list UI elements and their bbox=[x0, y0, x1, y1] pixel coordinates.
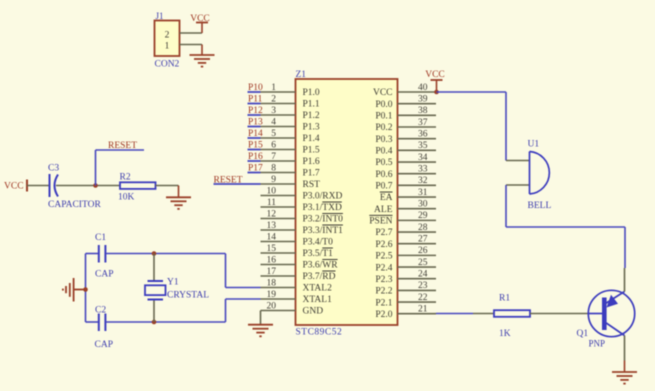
svg-text:XTAL2: XTAL2 bbox=[303, 284, 333, 294]
svg-text:RST: RST bbox=[303, 180, 321, 190]
svg-text:P0.6: P0.6 bbox=[375, 170, 392, 180]
svg-text:P1.1: P1.1 bbox=[303, 100, 320, 110]
svg-text:C3: C3 bbox=[48, 164, 59, 174]
svg-text:VCC: VCC bbox=[373, 88, 393, 98]
svg-text:2: 2 bbox=[165, 31, 170, 41]
svg-text:1: 1 bbox=[271, 83, 276, 93]
svg-text:STC89C52: STC89C52 bbox=[296, 328, 343, 338]
svg-text:26: 26 bbox=[418, 246, 428, 256]
svg-text:9: 9 bbox=[271, 175, 276, 185]
svg-text:35: 35 bbox=[418, 141, 428, 151]
svg-text:10: 10 bbox=[267, 186, 277, 196]
svg-text:P1.0: P1.0 bbox=[303, 88, 320, 98]
svg-text:24: 24 bbox=[418, 270, 428, 280]
svg-text:EA: EA bbox=[380, 193, 393, 203]
svg-text:31: 31 bbox=[418, 188, 428, 198]
svg-text:J1: J1 bbox=[156, 11, 164, 21]
svg-text:P2.4: P2.4 bbox=[375, 263, 392, 273]
svg-text:7: 7 bbox=[271, 152, 276, 162]
svg-text:3: 3 bbox=[271, 106, 276, 116]
svg-text:P0.4: P0.4 bbox=[375, 147, 392, 157]
svg-text:P3.2/INT0: P3.2/INT0 bbox=[303, 215, 344, 225]
svg-text:GND: GND bbox=[303, 307, 324, 317]
svg-text:11: 11 bbox=[267, 198, 276, 208]
svg-text:6: 6 bbox=[271, 140, 276, 150]
svg-text:1: 1 bbox=[165, 42, 170, 52]
svg-text:P3.1/TXD: P3.1/TXD bbox=[303, 203, 342, 213]
svg-text:PNP: PNP bbox=[589, 339, 606, 349]
svg-text:12: 12 bbox=[267, 209, 277, 219]
svg-text:15: 15 bbox=[267, 244, 277, 254]
svg-text:P0.0: P0.0 bbox=[375, 100, 392, 110]
svg-text:27: 27 bbox=[418, 235, 428, 245]
svg-text:2: 2 bbox=[271, 94, 276, 104]
svg-text:4: 4 bbox=[271, 117, 276, 127]
svg-text:ALE: ALE bbox=[374, 205, 393, 215]
svg-text:30: 30 bbox=[418, 200, 428, 210]
svg-text:20: 20 bbox=[267, 301, 277, 311]
svg-text:P0.7: P0.7 bbox=[375, 182, 392, 192]
svg-text:CAP: CAP bbox=[95, 270, 113, 280]
svg-text:8: 8 bbox=[271, 163, 276, 173]
svg-text:C1: C1 bbox=[95, 233, 106, 243]
svg-text:10K: 10K bbox=[118, 193, 135, 203]
svg-text:P1.4: P1.4 bbox=[303, 134, 320, 144]
svg-text:37: 37 bbox=[418, 118, 428, 128]
svg-text:P3.7/RD: P3.7/RD bbox=[303, 272, 336, 282]
svg-text:CAP: CAP bbox=[95, 340, 113, 350]
svg-text:RESET: RESET bbox=[108, 141, 137, 151]
svg-text:P1.5: P1.5 bbox=[303, 146, 320, 156]
svg-text:21: 21 bbox=[418, 305, 428, 315]
svg-text:1K: 1K bbox=[499, 329, 511, 339]
svg-text:16: 16 bbox=[267, 255, 277, 265]
svg-text:25: 25 bbox=[418, 258, 428, 268]
svg-text:17: 17 bbox=[267, 267, 277, 277]
svg-text:CRYSTAL: CRYSTAL bbox=[167, 291, 209, 301]
svg-text:U1: U1 bbox=[528, 140, 540, 150]
svg-text:40: 40 bbox=[418, 83, 428, 93]
svg-text:P3.5/T1: P3.5/T1 bbox=[303, 249, 334, 259]
svg-text:BELL: BELL bbox=[528, 201, 552, 211]
svg-text:VCC: VCC bbox=[425, 70, 445, 80]
svg-text:P0.3: P0.3 bbox=[375, 135, 392, 145]
svg-text:P0.2: P0.2 bbox=[375, 123, 392, 133]
svg-text:P3.3/INT1: P3.3/INT1 bbox=[303, 226, 344, 236]
svg-text:XTAL1: XTAL1 bbox=[303, 295, 333, 305]
svg-text:34: 34 bbox=[418, 153, 428, 163]
svg-text:33: 33 bbox=[418, 164, 428, 174]
svg-text:38: 38 bbox=[418, 106, 428, 116]
svg-text:PSEN: PSEN bbox=[369, 217, 392, 227]
svg-text:39: 39 bbox=[418, 94, 428, 104]
svg-text:P2.0: P2.0 bbox=[375, 310, 392, 320]
svg-text:23: 23 bbox=[418, 281, 428, 291]
svg-text:Z1: Z1 bbox=[296, 70, 307, 80]
svg-text:CAPACITOR: CAPACITOR bbox=[48, 200, 101, 210]
svg-text:22: 22 bbox=[418, 293, 428, 303]
svg-text:P1.3: P1.3 bbox=[303, 123, 320, 133]
svg-text:5: 5 bbox=[271, 129, 276, 139]
svg-text:36: 36 bbox=[418, 129, 428, 139]
svg-text:P0.1: P0.1 bbox=[375, 112, 392, 122]
svg-text:P2.5: P2.5 bbox=[375, 252, 392, 262]
svg-text:Y1: Y1 bbox=[167, 278, 179, 288]
svg-text:29: 29 bbox=[418, 211, 428, 221]
svg-text:P2.2: P2.2 bbox=[375, 287, 392, 297]
svg-text:P3.4/T0: P3.4/T0 bbox=[303, 238, 334, 248]
svg-text:19: 19 bbox=[267, 290, 277, 300]
svg-text:P2.1: P2.1 bbox=[375, 298, 392, 308]
svg-text:VCC: VCC bbox=[4, 182, 24, 192]
svg-text:C2: C2 bbox=[95, 306, 106, 316]
svg-text:P2.6: P2.6 bbox=[375, 240, 392, 250]
svg-text:28: 28 bbox=[418, 223, 428, 233]
svg-text:P3.6/WR: P3.6/WR bbox=[303, 261, 339, 271]
svg-text:R2: R2 bbox=[120, 173, 131, 183]
svg-text:P1.6: P1.6 bbox=[303, 157, 320, 167]
svg-text:32: 32 bbox=[418, 176, 428, 186]
svg-text:18: 18 bbox=[267, 278, 277, 288]
svg-text:CON2: CON2 bbox=[155, 60, 180, 70]
svg-text:13: 13 bbox=[267, 221, 277, 231]
svg-text:P2.3: P2.3 bbox=[375, 275, 392, 285]
svg-text:Q1: Q1 bbox=[577, 329, 589, 339]
svg-text:P1.2: P1.2 bbox=[303, 111, 320, 121]
svg-text:P3.0/RXD: P3.0/RXD bbox=[303, 192, 343, 202]
svg-text:P1.7: P1.7 bbox=[303, 169, 320, 179]
svg-text:P2.7: P2.7 bbox=[375, 228, 392, 238]
svg-text:14: 14 bbox=[267, 232, 277, 242]
svg-text:P0.5: P0.5 bbox=[375, 158, 392, 168]
svg-text:R1: R1 bbox=[499, 294, 510, 304]
